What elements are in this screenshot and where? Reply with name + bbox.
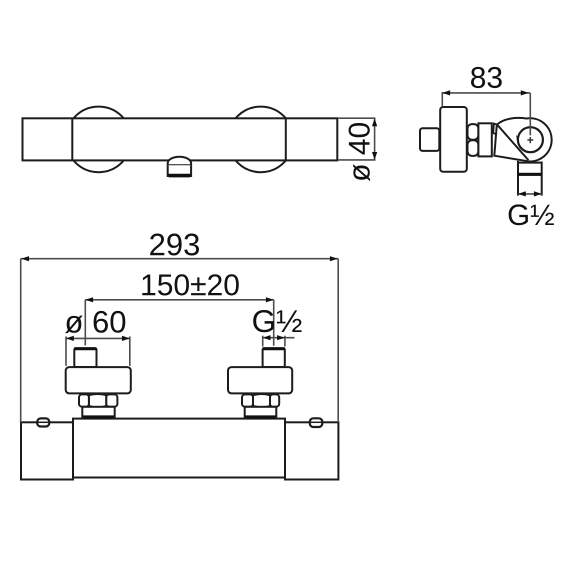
center cross vertical — [529, 137, 531, 143]
dimension ø40 extension top — [338, 117, 375, 119]
right nut right facet — [270, 394, 279, 406]
left lower collar — [82, 407, 114, 418]
dimension G1/2 arrow line — [518, 193, 542, 195]
left rosette — [66, 367, 131, 393]
dimension 293 right extension — [337, 259, 339, 423]
label G1/2 side view — [509, 204, 554, 225]
arrow ø40 up — [372, 118, 377, 126]
dimension ø60 line — [66, 337, 130, 339]
union nut upper facet — [468, 124, 479, 140]
label G1/2 front view — [253, 310, 301, 332]
central body — [73, 419, 285, 478]
dimension 150 left extension — [84, 300, 86, 346]
ring notch — [516, 135, 519, 140]
dimension ø40 line — [374, 118, 376, 159]
dimension 83 line — [442, 92, 530, 94]
dimension 293 line — [21, 258, 339, 260]
arrow 293 left — [21, 256, 29, 261]
right wall plate — [285, 422, 338, 479]
left plate nub — [37, 418, 49, 426]
handle circle left — [66, 107, 132, 173]
label ø 60 — [65, 311, 125, 333]
left nut middle facet — [89, 394, 106, 407]
handle circle right — [228, 107, 294, 173]
arrow G1/2 right — [534, 191, 542, 196]
left connector stub top edge — [74, 347, 96, 350]
dimension 150±20 line — [85, 299, 273, 301]
wall stub — [420, 128, 439, 151]
right rosette — [228, 367, 292, 393]
right plate nub rim — [311, 421, 322, 423]
label 83 — [471, 67, 502, 88]
arrow 83 right — [521, 90, 529, 95]
outlet gasket band — [518, 173, 542, 176]
outlet nub dome — [168, 157, 191, 166]
right cap line — [285, 118, 287, 160]
outlet nub gasket band — [168, 174, 191, 178]
dimension 83 right extension — [529, 93, 531, 135]
outlet tube left wall — [517, 161, 519, 196]
right lower collar — [245, 407, 277, 418]
left collar gasket — [83, 415, 114, 418]
dimension 293 left extension — [20, 259, 22, 423]
union nut lower facet — [468, 140, 479, 156]
arrow 150 left — [85, 297, 93, 302]
outlet nub sides — [168, 165, 191, 176]
wall flange — [440, 107, 467, 172]
right connector stub top edge — [263, 347, 285, 350]
dimension 83 left extension — [441, 92, 443, 106]
ring inner circle — [518, 127, 543, 152]
arrow ø60 left — [66, 336, 74, 341]
union barrel — [478, 123, 491, 156]
center cross horizontal — [527, 139, 533, 141]
right connector stub — [263, 348, 285, 367]
dimension ø40 extension bottom — [338, 159, 375, 161]
mixer body bar — [23, 118, 338, 160]
left cap line — [71, 118, 73, 160]
left wall plate — [21, 422, 73, 479]
left nut right facet — [106, 394, 117, 406]
arrow 83 left — [442, 90, 450, 95]
dimension ø60 right extension — [129, 336, 131, 366]
dimension 150 right extension — [273, 300, 275, 346]
label ø 40 — [349, 123, 371, 181]
dimension G1/2 left extension — [262, 336, 264, 347]
outlet tube right wall — [541, 162, 543, 196]
dimension G1/2 right extension — [284, 336, 286, 347]
arrow ø60 right — [122, 336, 130, 341]
arrow ø40 down — [372, 152, 377, 160]
arrow 150 right — [266, 297, 274, 302]
label 293 — [150, 234, 199, 256]
outlet tube top line — [518, 162, 542, 164]
label 150±20 — [142, 274, 238, 295]
cone edge line — [498, 125, 529, 160]
right collar gasket — [245, 415, 276, 418]
left nut left facet — [79, 394, 89, 406]
left connector stub — [74, 348, 96, 367]
outlet nub collar line — [168, 164, 191, 166]
arrow G1/2 front right — [277, 335, 285, 340]
swivel body (wedge + ring) — [494, 118, 551, 161]
arrow 293 right — [330, 256, 338, 261]
right plate nub — [310, 418, 323, 427]
dimension G1/2 line — [263, 337, 295, 339]
arrow G1/2 left — [518, 191, 526, 196]
cone sliver facet — [493, 124, 498, 135]
dimension ø60 left extension — [65, 336, 67, 366]
right nut middle facet — [253, 394, 270, 407]
left plate nub rim — [38, 421, 49, 423]
right nut left facet — [242, 394, 253, 406]
arrow G1/2 front left — [263, 335, 271, 340]
